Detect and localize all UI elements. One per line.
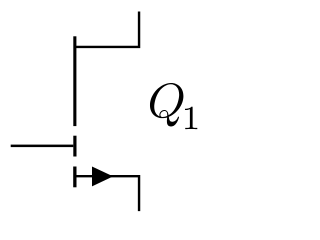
wire: drain lead (top terminal, corner at right) [76,12,139,47]
wire: source lead (with corner down at right) [76,176,139,211]
transistor Q1 gate segment [73,136,76,157]
transistor Q1 source arrowhead [92,167,113,187]
wire: gate lead [11,145,74,148]
transistor Q1 source segment [73,167,76,188]
label Q1 (letter Q, Computer Modern math italic, drawn as path) [150,83,183,127]
label Q1 subscript 1 (drawn as path) [185,107,197,129]
transistor Q1 channel bar (drain-side long segment) [73,36,76,126]
